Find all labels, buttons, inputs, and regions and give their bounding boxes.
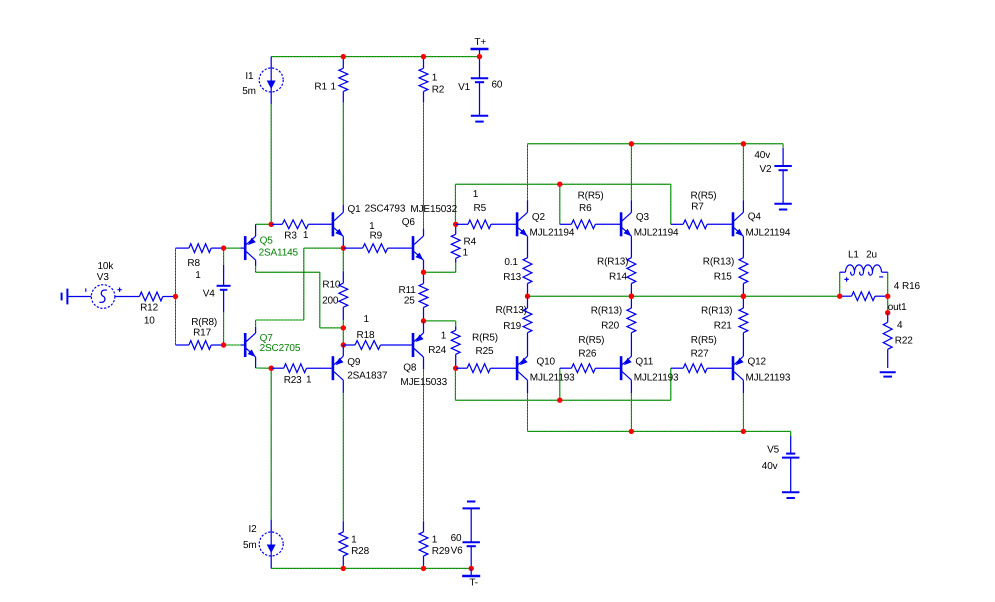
resistor R1: [339, 57, 348, 103]
svg-text:2SA1145: 2SA1145: [259, 248, 299, 259]
label Q10: [537, 357, 556, 368]
resistor R22: [883, 313, 892, 368]
label R7 value: [691, 191, 717, 202]
svg-text:R(R13): R(R13): [701, 306, 732, 317]
svg-text:1: 1: [306, 374, 312, 385]
junction rail R1: [341, 54, 346, 59]
terminal T-: [462, 568, 480, 576]
svg-text:Q9: Q9: [347, 357, 361, 368]
label R10: [322, 279, 340, 290]
resistor R3: [271, 220, 333, 229]
resistor R17: [176, 341, 224, 350]
svg-text:25: 25: [404, 295, 415, 306]
resistor R15: [739, 258, 748, 297]
resistor R7: [671, 220, 733, 229]
resistor R2: [419, 57, 428, 103]
wire node to I2: [270, 368, 272, 520]
label V1 value 60: [492, 79, 503, 90]
svg-text:MJL21193: MJL21193: [634, 373, 679, 384]
label T+: [474, 37, 486, 48]
resistor R12: [129, 292, 176, 301]
resistor R19: [523, 296, 532, 356]
label Q10 type: [530, 373, 575, 384]
wire R11 to R24 link: [424, 321, 456, 327]
svg-text:R(R13): R(R13): [496, 305, 527, 316]
label V3 value 10k: [98, 261, 115, 272]
svg-text:2SC4793: 2SC4793: [365, 204, 406, 215]
label R25 value: [472, 333, 498, 344]
label R22: [895, 335, 913, 346]
junction R4 top: [453, 222, 458, 227]
ground output: [880, 372, 896, 376]
label Q5 type: [259, 248, 299, 259]
junction R29 bottom: [421, 566, 426, 571]
junction mid rail Q3: [629, 294, 634, 299]
label V5: [767, 445, 780, 456]
svg-text:0.1: 0.1: [504, 257, 518, 268]
wire R1 to Q1 collector: [342, 103, 344, 206]
wire lower base rail: [455, 399, 670, 401]
wire Q5 base stub: [224, 247, 241, 249]
transistor Q1: [332, 205, 344, 248]
svg-text:L1: L1: [848, 249, 859, 260]
svg-text:R29: R29: [432, 546, 450, 557]
junction R24 bottom: [453, 366, 458, 371]
svg-text:Q11: Q11: [635, 357, 653, 368]
svg-text:R9: R9: [370, 231, 383, 242]
svg-text:V6: V6: [451, 545, 464, 556]
transistor Q8: [412, 321, 424, 370]
svg-text:R19: R19: [503, 321, 521, 332]
junction R13 bottom: [525, 294, 530, 299]
svg-text:I2: I2: [249, 524, 258, 535]
resistor R21: [739, 296, 748, 356]
junction Q7 emitter node: [269, 366, 274, 371]
wire top rail: [528, 143, 784, 145]
resistor R25: [456, 364, 517, 373]
label R13 value: [504, 257, 518, 268]
junction R11 bottom: [421, 318, 426, 323]
svg-text:MJL21194: MJL21194: [634, 228, 679, 239]
label R4 value 1: [463, 248, 469, 259]
wire Q8 collector to R29: [423, 369, 425, 521]
svg-text:R6: R6: [579, 203, 592, 214]
svg-text:R28: R28: [351, 546, 369, 557]
label Q2 type: [530, 228, 575, 239]
svg-text:MJE15033: MJE15033: [400, 377, 447, 388]
wire upper base rail: [455, 183, 670, 185]
label Q3: [636, 212, 650, 223]
source V3: [86, 285, 129, 309]
label R21 value: [701, 306, 732, 317]
label I2: [249, 524, 258, 535]
svg-text:Q3: Q3: [636, 212, 650, 223]
label R2: [432, 85, 445, 96]
label Q6 type: [410, 204, 457, 215]
svg-text:Q6: Q6: [402, 217, 416, 228]
wire Q10 collector faller: [527, 393, 529, 431]
svg-text:V5: V5: [767, 445, 780, 456]
svg-text:R25: R25: [476, 346, 494, 357]
label V4: [203, 288, 216, 299]
current source I2: [259, 520, 283, 569]
label R16: [894, 281, 921, 292]
label Q6: [402, 217, 416, 228]
junction R14 bottom: [629, 294, 634, 299]
transistor Q9: [332, 345, 344, 393]
resistor R14: [627, 258, 636, 297]
junction Q1 emitter node: [341, 245, 346, 250]
label Q4: [748, 211, 762, 222]
label R18: [357, 330, 375, 341]
wire V4 top: [223, 248, 225, 265]
svg-text:R14: R14: [609, 272, 627, 283]
wire Q9 collector to R28: [342, 393, 344, 521]
terminal T+: [471, 49, 489, 57]
resistor R20: [627, 296, 636, 356]
wire node to R10: [342, 248, 344, 271]
wire out1 stub: [887, 296, 889, 313]
junction lower base rail: [557, 398, 562, 403]
transistor Q3: [620, 200, 632, 257]
current source I1: [259, 57, 283, 104]
svg-text:4: 4: [897, 320, 903, 331]
label R22 value 4: [897, 320, 903, 331]
label R24 value 1: [441, 331, 447, 342]
wire L1 left riser: [839, 272, 841, 296]
junction V4 bottom: [221, 342, 226, 347]
label R15: [714, 272, 732, 283]
battery V6: [463, 502, 480, 569]
label Q4 type: [746, 228, 791, 239]
label R2 value 1: [432, 73, 438, 84]
wire Q3 collector riser: [630, 144, 632, 201]
label R12: [140, 302, 158, 313]
junction V4 top: [221, 245, 226, 250]
resistor R4: [451, 224, 460, 262]
svg-text:V1: V1: [458, 82, 471, 93]
svg-text:R18: R18: [357, 330, 375, 341]
transistor Q6: [412, 229, 424, 272]
label V2 value 40v: [754, 150, 770, 161]
svg-text:R13: R13: [503, 272, 521, 283]
label I1: [245, 71, 254, 82]
svg-text:MJL21193: MJL21193: [530, 373, 575, 384]
svg-text:V3: V3: [97, 272, 110, 283]
svg-text:R27: R27: [691, 348, 709, 359]
label R13: [503, 272, 521, 283]
label R1: [314, 81, 336, 92]
wire output rail: [528, 295, 840, 297]
svg-text:1: 1: [331, 81, 337, 92]
svg-text:R12: R12: [140, 302, 158, 313]
label Q7 type: [260, 343, 301, 354]
wire V5 riser: [790, 431, 792, 436]
label Q12 type: [746, 373, 791, 384]
label R19: [503, 321, 521, 332]
resistor R11: [419, 272, 428, 321]
svg-text:R5: R5: [474, 203, 487, 214]
svg-text:R10: R10: [322, 279, 340, 290]
svg-text:R(R13): R(R13): [591, 306, 622, 317]
label R17: [193, 328, 211, 339]
svg-text:R17: R17: [193, 328, 211, 339]
transistor Q10: [516, 356, 528, 393]
label V6 value 60: [451, 533, 462, 544]
label R29 value 1: [432, 535, 438, 546]
svg-text:out1: out1: [888, 302, 907, 313]
svg-text:Q8: Q8: [403, 363, 417, 374]
svg-text:R26: R26: [578, 348, 596, 359]
svg-text:1: 1: [351, 535, 357, 546]
label Q8 type: [400, 377, 447, 388]
junction input node: [173, 294, 178, 299]
wire dot to dot x343: [342, 328, 344, 345]
svg-text:40v: 40v: [754, 150, 770, 161]
svg-text:R2: R2: [432, 85, 445, 96]
label R10 value 200: [322, 295, 339, 306]
svg-text:Q1: Q1: [348, 204, 362, 215]
svg-text:V2: V2: [760, 164, 773, 175]
junction upper base rail: [557, 182, 562, 187]
wire lower base rail left riser: [454, 368, 456, 400]
wire R27 riser: [670, 368, 672, 400]
svg-text:R15: R15: [714, 272, 732, 283]
svg-text:Q2: Q2: [532, 212, 546, 223]
junction R11 top: [421, 270, 426, 275]
label L1: [848, 249, 877, 260]
wire Q7 base stub: [224, 344, 241, 346]
label R17 value: [191, 317, 217, 328]
wire upper base rail left riser: [454, 184, 456, 224]
svg-text:Q5: Q5: [260, 236, 274, 247]
wire Q2 collector riser: [527, 144, 529, 201]
wire V2 riser: [782, 144, 784, 148]
wire Q12 collector faller: [742, 393, 744, 431]
junction R10 bottom: [341, 325, 346, 330]
junction top rail Q4: [741, 141, 746, 146]
wire V4 bottom: [223, 312, 225, 345]
transistor Q12: [732, 356, 744, 393]
ground input: [62, 289, 92, 305]
label R29: [432, 546, 450, 557]
node out1: [885, 310, 890, 315]
label Q1: [348, 204, 362, 215]
junction L1 right: [885, 294, 890, 299]
wire Q7 emitter to node: [256, 367, 272, 369]
wire R4 to R11 link: [424, 263, 456, 273]
label Q9 type: [347, 370, 388, 381]
label R14 value: [597, 257, 628, 268]
svg-text:R(R5): R(R5): [472, 333, 498, 344]
svg-text:R20: R20: [601, 320, 619, 331]
battery V5: [782, 436, 799, 498]
wire R2 to Q6 collector: [423, 103, 425, 230]
svg-text:R8: R8: [187, 258, 200, 269]
label R15 value: [703, 257, 734, 268]
label R26: [578, 348, 596, 359]
junction V6 bottom: [469, 566, 474, 571]
label R11: [399, 285, 417, 296]
wire top-left rail: [271, 56, 479, 58]
svg-text:R4: R4: [464, 237, 477, 248]
label R9: [370, 231, 383, 242]
svg-text:2u: 2u: [866, 249, 877, 260]
resistor R5: [456, 220, 517, 229]
svg-text:R7: R7: [691, 202, 704, 213]
label I2 value 5m: [243, 540, 257, 551]
resistor R29: [419, 521, 428, 568]
label Q11: [635, 357, 653, 368]
label R25: [476, 346, 494, 357]
svg-text:10: 10: [144, 315, 155, 326]
svg-text:1: 1: [463, 248, 469, 259]
svg-text:40v: 40v: [762, 461, 778, 472]
label R14: [609, 272, 627, 283]
label R26 value: [578, 335, 604, 346]
transistor Q2: [516, 200, 528, 257]
wire R6 riser: [559, 184, 561, 224]
transistor Q5: [241, 224, 256, 266]
label R6 value: [578, 191, 604, 202]
wire Q5 collector jog: [256, 266, 344, 328]
label R6: [579, 203, 592, 214]
svg-text:R(R5): R(R5): [578, 335, 604, 346]
wire bottom rail: [528, 430, 791, 432]
wire Q11 collector faller: [630, 393, 632, 431]
label R3: [284, 230, 309, 242]
junction bottom rail Q12: [741, 429, 746, 434]
junction mid rail Q4: [741, 294, 746, 299]
label Q1 type: [365, 204, 406, 215]
label R9 value 1: [369, 221, 375, 232]
label R8: [187, 258, 200, 269]
svg-text:200: 200: [322, 295, 339, 306]
label R7: [691, 202, 704, 213]
junction R28 bottom: [341, 566, 346, 571]
svg-text:1: 1: [195, 270, 201, 281]
svg-text:T+: T+: [474, 37, 486, 48]
battery V1: [471, 57, 488, 122]
resistor R8: [176, 244, 224, 253]
label R20 value: [591, 306, 622, 317]
label R28 value 1: [351, 535, 357, 546]
label R19 value: [496, 305, 527, 316]
svg-text:R(R5): R(R5): [691, 191, 717, 202]
svg-text:R23: R23: [284, 375, 302, 386]
resistor R16: [840, 292, 888, 301]
label R5 value 1: [473, 189, 479, 200]
label R27 value: [691, 335, 717, 346]
svg-text:2SA1837: 2SA1837: [347, 370, 388, 381]
label T-: [469, 578, 478, 589]
svg-text:4: 4: [894, 281, 900, 292]
label out1: [888, 302, 907, 313]
svg-text:T-: T-: [469, 578, 478, 589]
label Q7: [260, 333, 274, 344]
wire R7 riser: [670, 184, 672, 224]
resistor R18: [343, 341, 413, 350]
resistor R27: [671, 364, 733, 373]
wire bottom-most rail: [271, 567, 471, 569]
svg-text:I1: I1: [245, 71, 254, 82]
svg-text:R3: R3: [284, 231, 297, 242]
svg-text:R11: R11: [399, 285, 417, 296]
wire Q7 collector jog: [256, 248, 344, 327]
label R23: [284, 374, 312, 386]
svg-text:MJL21194: MJL21194: [530, 228, 575, 239]
svg-text:R22: R22: [895, 335, 913, 346]
wire R26 riser: [559, 368, 561, 400]
label R12 value 10: [144, 315, 155, 326]
label R28: [351, 546, 369, 557]
junction L1 left: [837, 294, 842, 299]
svg-text:5m: 5m: [242, 86, 256, 97]
svg-text:R(R13): R(R13): [703, 257, 734, 268]
svg-text:R24: R24: [428, 345, 446, 356]
svg-text:R(R13): R(R13): [597, 257, 628, 268]
transistor Q7: [241, 327, 256, 368]
junction top rail Q3: [629, 141, 634, 146]
svg-text:MJL21194: MJL21194: [746, 228, 791, 239]
junction node A: [269, 222, 274, 227]
junction R18 node: [341, 342, 346, 347]
label V2: [760, 164, 773, 175]
label R20: [601, 320, 619, 331]
label Q9: [347, 357, 361, 368]
svg-text:Q10: Q10: [537, 357, 556, 368]
svg-text:1: 1: [432, 535, 438, 546]
label I1 value 5m: [242, 86, 256, 97]
label R5: [474, 203, 487, 214]
transistor Q11: [620, 356, 632, 393]
label Q8: [403, 363, 417, 374]
wire node A to Q5 emitter: [256, 223, 272, 225]
label V1: [458, 82, 471, 93]
svg-text:Q12: Q12: [748, 357, 767, 368]
label Q3 type: [634, 228, 679, 239]
svg-text:R16: R16: [902, 281, 920, 292]
resistor R6: [560, 220, 621, 229]
label R8 value 1: [195, 270, 201, 281]
svg-text:R1: R1: [314, 81, 327, 92]
svg-text:10k: 10k: [98, 261, 115, 272]
resistor R10: [339, 271, 348, 320]
resistor R24: [451, 326, 460, 368]
svg-text:1: 1: [303, 230, 309, 241]
wire R10 to dot: [342, 320, 344, 328]
label V6: [451, 545, 464, 556]
battery V2: [774, 148, 791, 210]
label R27: [691, 348, 709, 359]
label R24: [428, 345, 446, 356]
junction bottom rail Q11: [629, 429, 634, 434]
svg-text:60: 60: [451, 533, 462, 544]
transistor Q4: [732, 200, 744, 257]
junction R15 bottom: [741, 294, 746, 299]
label V5 value 40v: [762, 461, 778, 472]
svg-text:2SC2705: 2SC2705: [260, 343, 301, 354]
svg-text:MJE15032: MJE15032: [410, 204, 457, 215]
label R11 value 25: [404, 295, 415, 306]
svg-text:1: 1: [441, 331, 447, 342]
resistor R28: [339, 521, 348, 568]
wire Q4 collector riser: [742, 144, 744, 201]
label Q5: [260, 236, 274, 247]
junction rail R2: [421, 54, 426, 59]
svg-text:5m: 5m: [243, 540, 257, 551]
wire L1 right riser: [887, 272, 889, 296]
